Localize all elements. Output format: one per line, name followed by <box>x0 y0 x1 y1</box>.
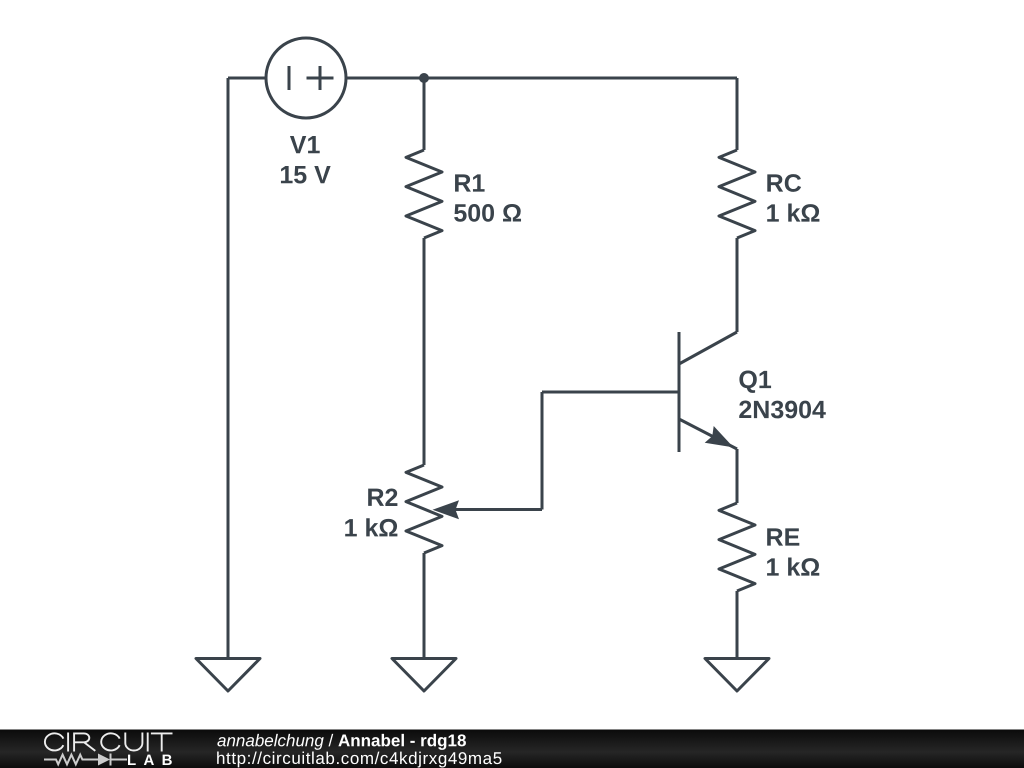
ground left <box>196 659 260 692</box>
svg-text:Q1: Q1 <box>738 366 771 394</box>
voltage source V1 circle <box>266 38 346 118</box>
V1 plus sign <box>307 66 334 90</box>
logo resistor-diode wire <box>44 754 127 766</box>
logo letter C <box>45 733 63 750</box>
wire node to R1 <box>423 78 426 150</box>
svg-text:R1: R1 <box>453 170 485 198</box>
wire wiper vertical <box>541 392 544 510</box>
svg-text:2N3904: 2N3904 <box>738 396 826 424</box>
svg-text:RE: RE <box>766 524 801 552</box>
wire top rail <box>346 77 737 80</box>
svg-text:http://circuitlab.com/c4kdjrxg: http://circuitlab.com/c4kdjrxg49ma5 <box>216 749 503 768</box>
resistor RE zigzag <box>719 503 755 591</box>
logo letter C <box>101 733 119 750</box>
wire R1 to R2 <box>423 238 426 465</box>
logo letter T <box>151 733 173 751</box>
potentiometer R2 wiper arrowhead <box>433 500 460 519</box>
svg-text:1 kΩ: 1 kΩ <box>344 514 399 542</box>
wire emitter to RE <box>736 449 739 503</box>
svg-text:RC: RC <box>766 170 802 198</box>
logo letter I <box>67 733 69 752</box>
svg-text:annabelchung / Annabel - rdg18: annabelchung / Annabel - rdg18 <box>217 731 466 750</box>
svg-text:V1: V1 <box>290 131 321 159</box>
transistor Q1 emitter arrowhead <box>705 426 734 447</box>
potentiometer R2 zigzag <box>406 465 442 553</box>
ground right <box>705 659 769 692</box>
wire wiper horizontal <box>445 508 542 511</box>
wire RE to ground <box>736 591 739 659</box>
logo letter I <box>147 733 149 752</box>
svg-text:LAB: LAB <box>127 752 180 768</box>
CircuitLab logo CIRCUIT letters <box>45 733 173 752</box>
transistor Q1 emitter diagonal <box>679 419 737 449</box>
logo letter U <box>125 733 142 751</box>
transistor Q1 base bar <box>678 332 681 452</box>
V1 minus bar <box>288 66 291 90</box>
wire R2 to ground <box>423 553 426 659</box>
footer bar <box>0 730 1024 768</box>
wire base horizontal <box>542 391 679 394</box>
ground middle <box>392 659 456 692</box>
wire left vertical <box>227 78 230 659</box>
wire top-left lead <box>228 77 266 80</box>
transistor Q1 collector diagonal <box>679 332 737 364</box>
svg-text:R2: R2 <box>366 484 398 512</box>
wire top right to RC <box>736 78 739 150</box>
node junction dot <box>419 73 429 83</box>
svg-text:1 kΩ: 1 kΩ <box>766 554 821 582</box>
svg-text:15 V: 15 V <box>279 161 331 189</box>
resistor RC zigzag <box>719 150 755 238</box>
wire RC to collector <box>736 238 739 332</box>
logo letter R <box>74 733 95 751</box>
resistor R1 zigzag <box>406 150 442 238</box>
svg-text:1 kΩ: 1 kΩ <box>766 200 821 228</box>
logo diode triangle <box>98 754 110 766</box>
svg-text:500 Ω: 500 Ω <box>453 199 522 227</box>
